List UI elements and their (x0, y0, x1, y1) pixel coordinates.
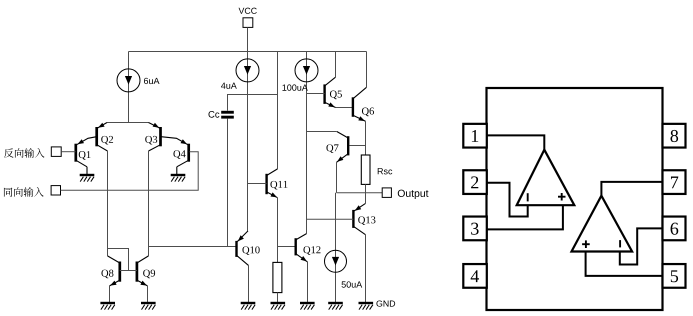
wire pin5 to U2 non-inverting input (586, 252, 663, 276)
wire Q6 collector to rail (366, 52, 368, 88)
ground Q4 (171, 167, 186, 182)
wire output line (337, 192, 383, 194)
ground Q8 (100, 286, 115, 310)
pin 4 (463, 264, 487, 288)
wire CC top (228, 95, 278, 111)
wire diff pair tail bar (107, 122, 149, 124)
wire Q13 emitter up (365, 193, 367, 204)
wire pin3 to U1 non-inverting input (487, 205, 563, 229)
transistor Q8 (101, 256, 119, 286)
wire non-inverting input to Q4 base (61, 152, 199, 191)
ground Q1 (80, 167, 95, 182)
wire 4uA output (247, 27, 249, 231)
DIP-8 package body (487, 88, 663, 310)
ground Q13 and GND label (359, 300, 396, 309)
wire Q7 base (350, 145, 366, 147)
transistor Q10 (237, 231, 260, 266)
transistor Q3 (145, 123, 160, 152)
current source 4uA (221, 59, 259, 89)
pin 5 (663, 264, 686, 288)
ground Q10 (241, 303, 256, 310)
wire VCC top rail (129, 51, 367, 53)
power VCC terminal (239, 8, 257, 28)
wire 50uA feed (335, 193, 337, 303)
transistor Q9 (137, 256, 155, 286)
wire Q5 emitter to Q6 base (336, 107, 353, 109)
op-amp U2 (572, 196, 633, 252)
ground R1 (271, 303, 286, 310)
wire Q3 collector drop (148, 151, 150, 256)
transistor Q11 (267, 169, 288, 198)
current source 100uA (282, 59, 318, 91)
transistor Q13 (353, 203, 375, 234)
current source 50uA (325, 250, 363, 287)
transistor Q7 (326, 132, 348, 163)
pin 1 (463, 124, 487, 148)
transistor Q4 (161, 137, 189, 167)
wire R1 to ground (277, 293, 279, 303)
node non-inverting input 同向输入 (4, 186, 61, 197)
node Output terminal (382, 188, 428, 199)
wire Rsc bottom (365, 184, 367, 192)
wire Q6 emitter drop (365, 121, 367, 155)
wire rail to Q11 collector (277, 52, 279, 169)
transistor Q5 (325, 77, 342, 107)
wire pin7 to U2 output (601, 182, 662, 196)
current source 6uA (117, 69, 159, 92)
wire Q2 collector drop (107, 151, 109, 256)
wire Q11 base (248, 183, 267, 185)
wire pin2 to U1 inverting input (487, 183, 528, 217)
op-amp U1 (517, 150, 575, 206)
resistor Rsc (361, 155, 392, 184)
wire 6uA feed (128, 52, 130, 123)
ground Q9 (141, 286, 156, 310)
wire Q12 emitter to ground (307, 262, 309, 303)
wire Q7 collector link (307, 131, 337, 133)
ground 50uA (328, 303, 343, 310)
wire Q7 emitter drop (336, 162, 338, 193)
transistor Q6 (353, 87, 374, 121)
node inverting input 反向输入 (4, 147, 61, 158)
wire pin6 to U2 inverting input (620, 228, 663, 264)
wire Q12 base (278, 246, 296, 248)
transistor Q1 (76, 137, 97, 167)
pin 7 (663, 170, 686, 194)
wire Q13 base (307, 218, 354, 220)
wire Q8 diode link (108, 249, 137, 271)
pin 6 (663, 217, 686, 241)
wire CC bottom (227, 119, 229, 247)
ground Q12 (300, 303, 315, 310)
wire mirror output row (149, 246, 237, 248)
capacitor CC (208, 111, 233, 119)
wire Q11 emitter drop (277, 198, 279, 263)
wire Q5 collector to rail (335, 52, 337, 78)
wire pin1 to U1 output (487, 135, 545, 149)
pin 2 (463, 170, 487, 194)
transistor Q12 (296, 234, 321, 262)
resistor R1 (273, 262, 282, 292)
wire 100uA output bus (306, 52, 308, 234)
transistor Q2 (97, 123, 113, 152)
pin 8 (663, 124, 686, 148)
pin 3 (463, 217, 487, 241)
wire Q13 collector to ground (365, 235, 367, 303)
wire Q10 collector to ground (248, 265, 250, 302)
wire inverting input to Q1 base (61, 151, 75, 153)
wire Q5 base (307, 93, 325, 95)
